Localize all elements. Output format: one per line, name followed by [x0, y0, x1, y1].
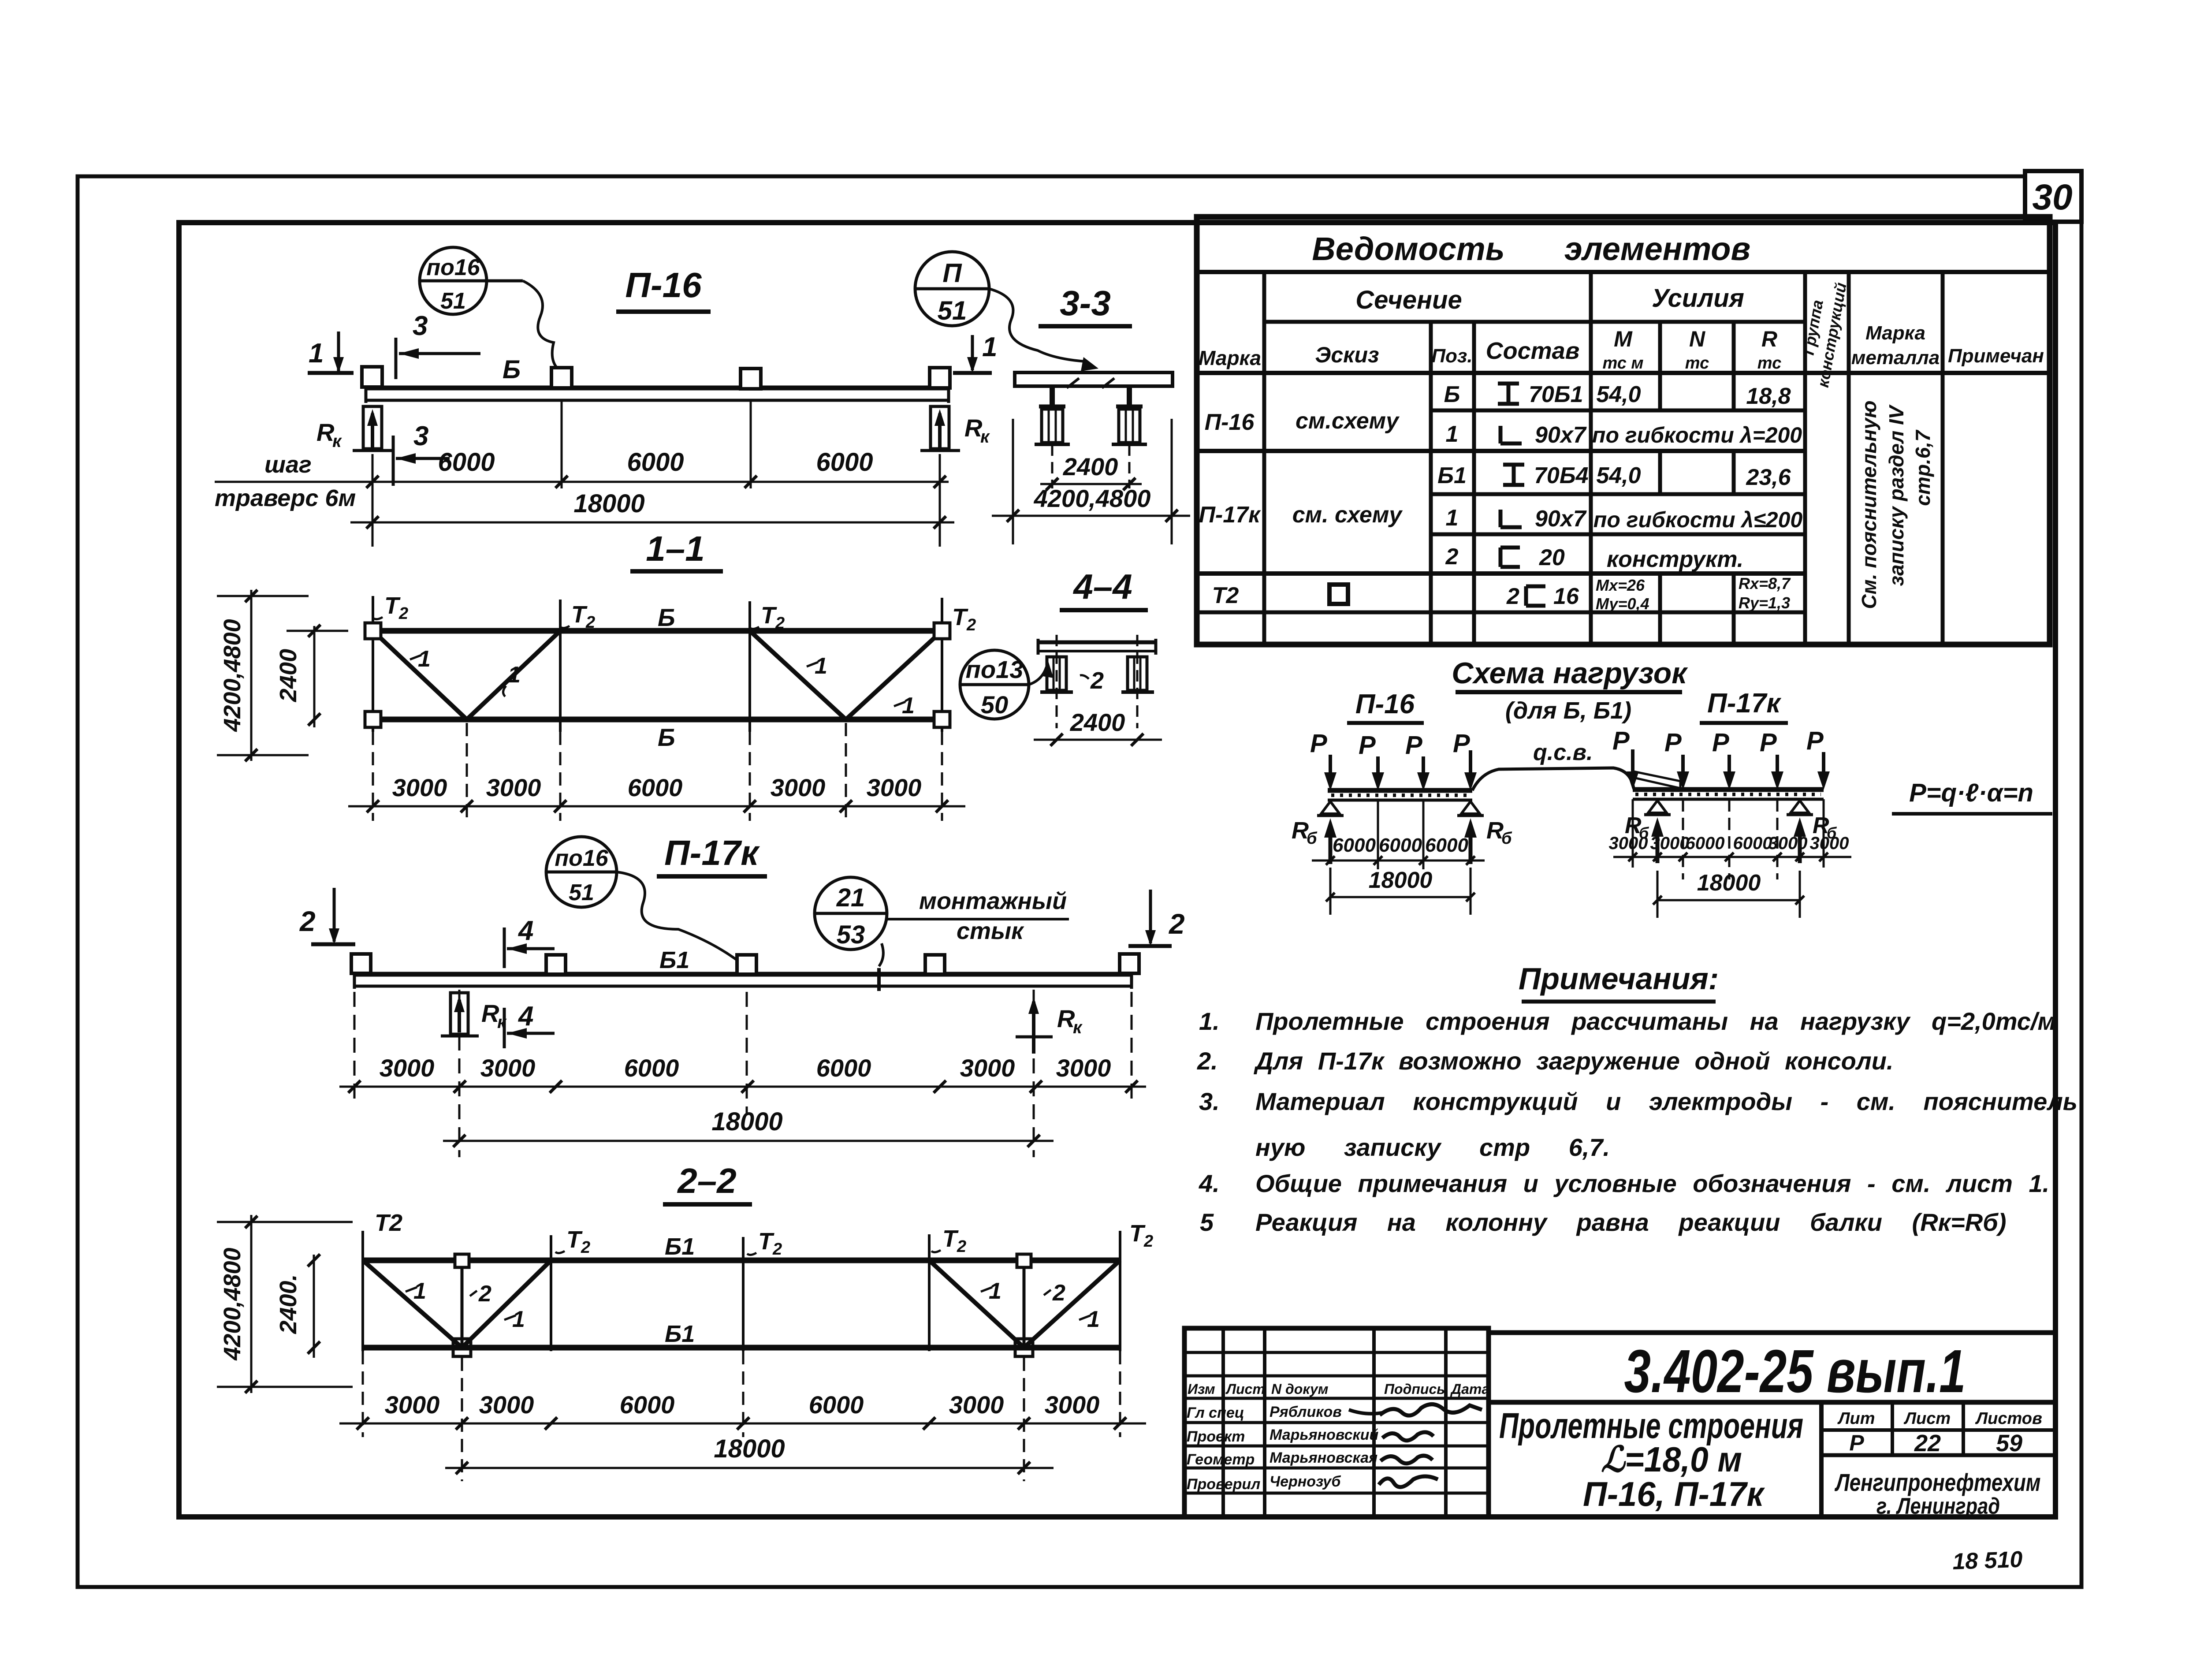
- traverse verticals T2: [372, 596, 374, 732]
- svg-text:конструкт.: конструкт.: [1607, 547, 1743, 572]
- dims (right beam): [1613, 856, 1851, 858]
- svg-text:P=q·ℓ·α=n: P=q·ℓ·α=n: [1909, 779, 2033, 807]
- svg-text:Сечение: Сечение: [1355, 286, 1462, 314]
- svg-text:тс: тс: [1685, 354, 1709, 373]
- svg-text:R: R: [964, 414, 983, 442]
- svg-text:50: 50: [981, 691, 1008, 719]
- svg-text:1: 1: [815, 653, 827, 679]
- svg-text:18000: 18000: [1369, 868, 1433, 893]
- right hanger I-beam + column: [1102, 378, 1147, 488]
- dim line 3000 3000 6000 6000 3000 3000: [339, 1423, 1146, 1425]
- vertical dim 4200,4800: [250, 590, 253, 761]
- support axes dashed: [458, 990, 461, 1157]
- left web vertical: [461, 1260, 464, 1348]
- svg-text:2: 2: [1506, 584, 1519, 609]
- svg-text:N докум: N докум: [1271, 1381, 1329, 1397]
- svg-text:Т: Т: [1129, 1220, 1146, 1247]
- self-weight line q.c.в.: [1472, 768, 1634, 790]
- svg-text:Ведомость: Ведомость: [1312, 231, 1504, 267]
- svg-text:2400: 2400: [275, 649, 302, 702]
- axes (right beam): [1682, 799, 1684, 879]
- svg-text:2: 2: [1090, 667, 1104, 694]
- svg-text:Rх=8,7: Rх=8,7: [1739, 574, 1791, 592]
- beam Б1 (plan): [354, 972, 1132, 977]
- svg-text:3000: 3000: [380, 1054, 435, 1082]
- svg-text:к: к: [980, 427, 990, 447]
- svg-text:4: 4: [517, 1001, 533, 1032]
- svg-text:70Б4: 70Б4: [1534, 463, 1589, 488]
- svg-text:б: б: [1307, 829, 1318, 848]
- svg-text:Б: Б: [658, 603, 675, 631]
- svg-text:2.: 2.: [1197, 1047, 1218, 1075]
- sheet number box: [2025, 171, 2081, 222]
- svg-text:1: 1: [309, 338, 324, 369]
- svg-text:51: 51: [938, 296, 967, 325]
- right web vertical: [1023, 1260, 1026, 1348]
- svg-text:3.402-25 вып.1: 3.402-25 вып.1: [1624, 1337, 1966, 1405]
- svg-text:Б1: Б1: [665, 1321, 695, 1347]
- svg-text:20: 20: [1539, 545, 1565, 570]
- svg-text:4: 4: [517, 916, 533, 946]
- svg-text:3: 3: [413, 311, 428, 341]
- svg-text:3000: 3000: [1609, 834, 1648, 853]
- svg-text:М: М: [1614, 327, 1633, 351]
- dim line 3000 3000 6000 3000 3000: [348, 805, 965, 808]
- svg-text:Лист: Лист: [1225, 1381, 1265, 1397]
- svg-text:3: 3: [413, 421, 428, 451]
- svg-text:51: 51: [569, 880, 594, 905]
- svg-text:30: 30: [2032, 177, 2072, 217]
- detail bubble по13/50: [960, 650, 1029, 719]
- svg-text:P: P: [1712, 728, 1729, 757]
- svg-text:г. Ленинград: г. Ленинград: [1876, 1494, 2000, 1519]
- svg-text:Р: Р: [1849, 1430, 1864, 1455]
- svg-text:Б1: Б1: [665, 1233, 695, 1260]
- svg-text:стр.6,7: стр.6,7: [1911, 429, 1934, 506]
- svg-text:2: 2: [772, 1240, 782, 1259]
- dim 18000 (right beam): [1657, 899, 1800, 901]
- right channel column: [1128, 657, 1147, 690]
- svg-text:6000: 6000: [1733, 834, 1772, 853]
- reactions Rб (left beam): [1329, 825, 1333, 864]
- svg-text:Rу=1,3: Rу=1,3: [1739, 594, 1790, 612]
- P loads (left beam): [1324, 750, 1477, 791]
- svg-text:1: 1: [1446, 505, 1459, 531]
- leader wire to beam: [617, 872, 740, 962]
- left V diagonals: [363, 1260, 462, 1348]
- svg-text:P: P: [1359, 731, 1376, 760]
- svg-text:6000: 6000: [1379, 834, 1422, 856]
- svg-text:18000: 18000: [711, 1107, 782, 1136]
- svg-text:Му=0,4: Му=0,4: [1596, 595, 1649, 613]
- svg-text:P: P: [1405, 731, 1422, 760]
- svg-text:Поз.: Поз.: [1431, 345, 1472, 367]
- svg-text:см. схему: см. схему: [1292, 502, 1404, 528]
- svg-text:Б1: Б1: [659, 947, 689, 973]
- svg-text:П-16: П-16: [1205, 410, 1255, 435]
- svg-text:18000: 18000: [1697, 870, 1761, 896]
- svg-text:P: P: [1760, 728, 1777, 757]
- svg-text:4200,4800: 4200,4800: [1034, 484, 1151, 512]
- svg-text:Т: Т: [942, 1226, 959, 1252]
- bottom chord Б1: [363, 1345, 1120, 1351]
- detail bubble по16/51 (П-17к): [546, 837, 617, 907]
- svg-text:2: 2: [585, 613, 595, 632]
- signatures scribbles: [1380, 1404, 1482, 1416]
- svg-text:Дата: Дата: [1450, 1381, 1489, 1397]
- svg-text:Б: Б: [1444, 382, 1460, 407]
- column lines: [1262, 272, 1266, 644]
- svg-text:См. пояснительную: См. пояснительную: [1858, 400, 1880, 609]
- svg-text:6000: 6000: [620, 1391, 675, 1419]
- leader wire to section 3-3 with arrow: [989, 289, 1086, 361]
- svg-text:ℒ=18,0 м: ℒ=18,0 м: [1601, 1440, 1742, 1479]
- svg-text:2: 2: [299, 905, 316, 937]
- svg-text:к: к: [497, 1013, 507, 1032]
- leader wire from bubble to joint: [879, 943, 883, 966]
- svg-text:3000: 3000: [1650, 834, 1690, 853]
- svg-text:ную записку стр 6,7.: ную записку стр 6,7.: [1255, 1133, 1610, 1161]
- svg-text:3000: 3000: [771, 774, 826, 801]
- svg-text:q.с.в.: q.с.в.: [1533, 740, 1593, 765]
- svg-text:16: 16: [1553, 584, 1579, 609]
- svg-text:70Б1: 70Б1: [1529, 382, 1583, 407]
- svg-text:1–1: 1–1: [646, 529, 704, 568]
- svg-text:Состав: Состав: [1486, 338, 1580, 364]
- supports (left beam): [1321, 801, 1340, 814]
- svg-text:18,8: 18,8: [1746, 384, 1791, 409]
- svg-text:2: 2: [1143, 1232, 1153, 1251]
- svg-text:Листов: Листов: [1975, 1409, 2042, 1428]
- svg-text:2: 2: [581, 1238, 590, 1257]
- reactions Rб (right beam): [1656, 824, 1660, 863]
- svg-text:Лит: Лит: [1837, 1409, 1875, 1428]
- cantilever load wedge: [1634, 771, 1680, 788]
- svg-text:3000: 3000: [1045, 1391, 1100, 1419]
- svg-text:по16: по16: [555, 846, 608, 871]
- leader wire to 4-4: [1029, 667, 1046, 685]
- svg-text:1: 1: [1087, 1307, 1100, 1332]
- leader wire from bubble to beam: [523, 281, 558, 369]
- svg-text:6000: 6000: [624, 1054, 679, 1082]
- svg-text:по16: по16: [426, 255, 480, 280]
- svg-text:3.: 3.: [1199, 1088, 1220, 1115]
- svg-text:Лист: Лист: [1903, 1409, 1951, 1428]
- svg-text:R: R: [1057, 1005, 1075, 1032]
- svg-text:Общие примечания и условные об: Общие примечания и условные обозначения …: [1255, 1170, 2049, 1197]
- dims 6000x3 (left beam): [1312, 860, 1485, 862]
- svg-text:Реакция на колонну равна реакц: Реакция на колонну равна реакции балки (…: [1255, 1208, 2007, 1236]
- svg-text:18000: 18000: [714, 1434, 785, 1463]
- diagonals right V: [750, 631, 846, 719]
- svg-text:22: 22: [1914, 1430, 1941, 1456]
- svg-text:П-16, П-17к: П-16, П-17к: [1583, 1475, 1765, 1513]
- svg-text:3000: 3000: [392, 774, 447, 801]
- detail bubble П/51: [915, 252, 989, 326]
- svg-text:1: 1: [982, 332, 997, 362]
- svg-text:6000: 6000: [816, 1054, 871, 1082]
- sostav: [ 20: [1500, 548, 1520, 567]
- svg-text:Примечан: Примечан: [1948, 345, 2044, 367]
- svg-text:90х7: 90х7: [1535, 422, 1587, 448]
- svg-text:2: 2: [966, 616, 976, 634]
- svg-text:П-16: П-16: [625, 265, 702, 305]
- svg-text:Подпись: Подпись: [1384, 1381, 1445, 1397]
- column under beam (left) with reaction arrow: [363, 406, 382, 449]
- svg-text:1: 1: [1446, 421, 1459, 447]
- svg-text:6000: 6000: [1686, 834, 1725, 853]
- svg-text:3000: 3000: [486, 774, 541, 801]
- svg-text:4200,4800: 4200,4800: [219, 619, 246, 732]
- traverse chord piece: [1038, 641, 1156, 644]
- svg-text:П-17к: П-17к: [1707, 688, 1781, 719]
- svg-text:3000: 3000: [480, 1054, 536, 1082]
- svg-text:1: 1: [413, 1278, 426, 1304]
- mounting joint tick on beam: [877, 968, 881, 991]
- svg-text:П: П: [942, 258, 962, 288]
- svg-text:см.схему: см.схему: [1296, 408, 1400, 434]
- svg-text:по гибкости λ=200: по гибкости λ=200: [1592, 423, 1802, 447]
- svg-text:1: 1: [989, 1278, 1001, 1304]
- elements list table frame: [1197, 217, 2050, 644]
- support pads (squares) on beam: [362, 367, 382, 387]
- svg-text:Т: Т: [952, 604, 968, 630]
- svg-text:P: P: [1453, 729, 1470, 758]
- svg-text:Т2: Т2: [1212, 583, 1239, 608]
- svg-text:Рябликов: Рябликов: [1270, 1404, 1342, 1420]
- dim line 18000: [443, 1140, 1054, 1142]
- sostav: ∟ 90x7: [1500, 426, 1522, 443]
- svg-text:Схема нагрузок: Схема нагрузок: [1452, 656, 1688, 690]
- dim 2400: [1040, 483, 1142, 485]
- node axes below bottom chord: [461, 1358, 463, 1481]
- svg-text:6000: 6000: [438, 448, 495, 477]
- svg-text:4200,4800: 4200,4800: [219, 1248, 246, 1360]
- supports (right beam): [1648, 801, 1667, 813]
- svg-text:стык: стык: [957, 918, 1024, 944]
- svg-text:6000: 6000: [809, 1391, 864, 1419]
- svg-text:Проверил: Проверил: [1187, 1476, 1260, 1493]
- svg-text:П-16: П-16: [1355, 689, 1415, 719]
- svg-text:5: 5: [1200, 1208, 1214, 1236]
- header band lines: [1264, 320, 1805, 324]
- svg-text:3000: 3000: [960, 1054, 1015, 1082]
- svg-text:2: 2: [1445, 544, 1459, 570]
- truss top chord Б: [373, 628, 942, 634]
- svg-text:по гибкости λ≤200: по гибкости λ≤200: [1593, 507, 1803, 532]
- svg-text:51: 51: [440, 288, 466, 314]
- svg-text:Т: Т: [384, 592, 401, 619]
- svg-text:4.: 4.: [1199, 1170, 1220, 1197]
- svg-text:P: P: [1310, 729, 1327, 758]
- dimension line 18000: [350, 522, 954, 524]
- svg-text:1: 1: [418, 646, 431, 672]
- diagonals left V: [373, 631, 467, 719]
- dim 2400: [1034, 739, 1162, 741]
- svg-text:2: 2: [478, 1281, 491, 1307]
- P loads (right beam): [1627, 749, 1830, 790]
- svg-text:3000: 3000: [949, 1391, 1004, 1419]
- right support reaction: [1032, 1002, 1035, 1054]
- svg-text:Геометр: Геометр: [1187, 1451, 1255, 1468]
- svg-text:к: к: [332, 432, 342, 451]
- sostav column: I 70Б1: [1498, 384, 1519, 404]
- svg-text:записку раздел IV: записку раздел IV: [1885, 404, 1908, 586]
- T2 sketch: small square symbol: [1329, 585, 1348, 604]
- svg-text:P: P: [1664, 728, 1682, 757]
- dimension line 6000x3: [215, 481, 949, 483]
- svg-text:6000: 6000: [628, 774, 683, 801]
- lit/list/listov grid: [1821, 1428, 2055, 1432]
- svg-text:6000: 6000: [627, 448, 684, 477]
- svg-text:Ленгипронефтехим: Ленгипронефтехим: [1834, 1468, 2040, 1496]
- row lines: [1431, 409, 1805, 413]
- svg-text:по13: по13: [966, 656, 1024, 683]
- dim line 3000 3000 6000 6000 3000 3000: [339, 1086, 1146, 1088]
- svg-text:Проект: Проект: [1187, 1428, 1245, 1445]
- outer sheet border: [78, 176, 2081, 1587]
- svg-text:54,0: 54,0: [1596, 463, 1641, 488]
- svg-text:3000: 3000: [1056, 1054, 1111, 1082]
- vertical dim 2400: [313, 626, 316, 727]
- title block top: [1489, 1330, 2055, 1335]
- svg-text:2: 2: [957, 1237, 966, 1256]
- svg-text:3000: 3000: [867, 774, 922, 801]
- svg-text:R: R: [316, 418, 335, 446]
- svg-text:2: 2: [1052, 1280, 1065, 1306]
- inner drawing frame: [179, 223, 2055, 1517]
- svg-text:3-3: 3-3: [1060, 283, 1111, 323]
- svg-text:Марка: Марка: [1199, 346, 1261, 369]
- svg-text:(для Б, Б1): (для Б, Б1): [1505, 697, 1631, 724]
- svg-text:Т: Т: [566, 1226, 583, 1253]
- svg-text:монтажный: монтажный: [919, 888, 1067, 914]
- svg-text:4–4: 4–4: [1072, 567, 1132, 606]
- signature table frame: [1184, 1328, 1489, 1517]
- svg-text:54,0: 54,0: [1596, 382, 1641, 407]
- svg-text:Марка: Марка: [1865, 322, 1925, 344]
- svg-text:Материал конструкций и электро: Материал конструкций и электроды - см. п…: [1255, 1088, 2077, 1115]
- svg-text:П-17к: П-17к: [1199, 502, 1262, 528]
- svg-text:металла: металла: [1851, 347, 1940, 369]
- svg-text:18000: 18000: [573, 489, 644, 518]
- svg-text:R: R: [481, 999, 499, 1027]
- svg-text:3000: 3000: [385, 1391, 440, 1419]
- M/N/R splits: [1658, 322, 1662, 410]
- sostav: ∟ 90x7: [1500, 510, 1522, 527]
- beam Б (plan, two flange lines): [366, 386, 949, 391]
- svg-text:1: 1: [902, 693, 915, 719]
- interior axes: [1377, 800, 1379, 869]
- svg-text:3000: 3000: [1768, 834, 1808, 853]
- svg-text:элементов: элементов: [1564, 231, 1750, 267]
- svg-text:Чернозуб: Чернозуб: [1270, 1473, 1341, 1490]
- svg-text:тс: тс: [1757, 354, 1781, 373]
- left channel column: [1047, 657, 1066, 690]
- svg-text:тс м: тс м: [1602, 354, 1643, 373]
- svg-text:1: 1: [512, 1307, 525, 1332]
- svg-text:Эскиз: Эскиз: [1315, 343, 1379, 367]
- svg-text:18 510: 18 510: [1952, 1546, 2023, 1575]
- svg-text:2: 2: [398, 604, 408, 623]
- left load beam: [1328, 788, 1472, 793]
- traverse beam (section): [1015, 373, 1173, 386]
- drawing name cell: [1819, 1402, 1824, 1517]
- right V diagonals: [929, 1260, 1024, 1348]
- svg-text:Примечания:: Примечания:: [1519, 961, 1719, 996]
- svg-text:шаг: шаг: [264, 451, 312, 478]
- svg-text:Для П-17к возможно загружение: Для П-17к возможно загружение одной конс…: [1254, 1047, 1893, 1075]
- svg-text:Т: Т: [761, 602, 777, 629]
- svg-text:P: P: [1612, 726, 1630, 755]
- svg-text:3000: 3000: [479, 1391, 534, 1419]
- svg-text:Мх=26: Мх=26: [1596, 576, 1645, 594]
- detail bubble 21/53: [815, 877, 887, 950]
- vertical dim 4200,4800: [250, 1215, 253, 1393]
- svg-text:21: 21: [836, 883, 865, 912]
- svg-text:1: 1: [508, 662, 521, 688]
- svg-text:Марьяновская: Марьяновская: [1270, 1449, 1377, 1466]
- top chord Б1: [363, 1258, 1120, 1263]
- svg-text:59: 59: [1996, 1430, 2022, 1456]
- svg-text:53: 53: [837, 920, 865, 949]
- svg-text:90х7: 90х7: [1535, 506, 1587, 532]
- svg-text:Пролетные строения рассчитаны: Пролетные строения рассчитаны на нагрузк…: [1255, 1007, 2056, 1035]
- right load beam: [1633, 787, 1824, 792]
- svg-text:2400: 2400: [1070, 708, 1125, 736]
- dim 4200,4800: [992, 515, 1190, 517]
- sostav: I 70Б4: [1503, 465, 1524, 485]
- column under beam (right) with reaction arrow: [931, 406, 949, 449]
- traverse verticals T2: [361, 1231, 364, 1351]
- svg-text:Б1: Б1: [1437, 463, 1467, 488]
- svg-text:2–2: 2–2: [677, 1161, 736, 1200]
- svg-text:N: N: [1689, 327, 1705, 351]
- dim 18000 (left beam): [1330, 896, 1471, 898]
- svg-text:Гл спец: Гл спец: [1187, 1404, 1244, 1421]
- svg-text:P: P: [1806, 726, 1824, 755]
- truss bottom chord Б: [373, 717, 942, 723]
- svg-text:Т2: Т2: [375, 1210, 402, 1236]
- svg-text:23,6: 23,6: [1746, 465, 1791, 490]
- dim line 18000: [445, 1467, 1054, 1469]
- gusset squares: [365, 623, 381, 639]
- svg-text:б: б: [1501, 829, 1512, 848]
- svg-text:2400.: 2400.: [275, 1274, 302, 1334]
- svg-text:Усилия: Усилия: [1652, 284, 1744, 313]
- svg-text:П-17к: П-17к: [664, 833, 760, 872]
- svg-text:2: 2: [1169, 908, 1185, 940]
- svg-text:2400: 2400: [1063, 453, 1118, 481]
- svg-text:R: R: [1761, 327, 1777, 351]
- svg-text:Б: Б: [503, 355, 521, 384]
- svg-text:6000: 6000: [1333, 834, 1376, 856]
- svg-text:2: 2: [775, 614, 785, 633]
- svg-text:Т: Т: [571, 601, 588, 628]
- svg-text:Т: Т: [758, 1228, 774, 1255]
- left support column + reaction: [450, 993, 468, 1034]
- svg-text:3000: 3000: [1810, 834, 1849, 853]
- svg-text:1.: 1.: [1199, 1007, 1220, 1035]
- svg-text:Марьяновский: Марьяновский: [1270, 1427, 1379, 1443]
- svg-text:Б: Б: [658, 723, 675, 751]
- svg-text:Изм: Изм: [1188, 1381, 1215, 1397]
- svg-text:к: к: [1073, 1018, 1083, 1037]
- svg-text:6000: 6000: [1425, 834, 1468, 856]
- svg-text:6000: 6000: [816, 448, 873, 477]
- svg-text:траверс 6м: траверс 6м: [215, 485, 356, 511]
- node axis dashes below bottom chord: [466, 723, 468, 821]
